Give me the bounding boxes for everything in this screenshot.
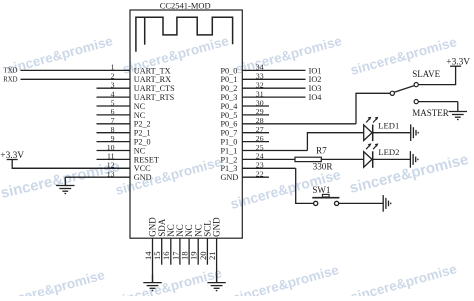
- svg-text:R7: R7: [316, 146, 327, 156]
- wire +3.3V to VCC pin 12: [12, 160, 130, 169]
- svg-text:IO1: IO1: [309, 66, 322, 75]
- svg-text:SW1: SW1: [312, 185, 330, 195]
- wire pin 34: [242, 69, 305, 71]
- svg-text:10: 10: [107, 143, 115, 152]
- svg-text:CC2541-MOD: CC2541-MOD: [160, 1, 211, 11]
- svg-text:P2_1: P2_1: [134, 129, 151, 138]
- pin 10 stub: [97, 150, 131, 152]
- pin 9 stub: [97, 141, 131, 143]
- wire pin 2 from RXD: [21, 78, 131, 80]
- svg-text:8: 8: [111, 125, 115, 134]
- svg-text:11: 11: [107, 152, 115, 161]
- svg-text:7: 7: [111, 116, 115, 125]
- svg-text:P2_0: P2_0: [134, 138, 151, 147]
- wire pin 32: [242, 87, 305, 89]
- pushbutton SW1: [312, 185, 339, 205]
- wire pin 23: [242, 167, 295, 169]
- svg-text:IO2: IO2: [309, 75, 322, 84]
- switch pole contact: [390, 91, 394, 95]
- ground (pin 14): [143, 274, 161, 290]
- wire pin 12 VCC to +3.3V: [12, 167, 130, 169]
- svg-text:UART_RTS: UART_RTS: [134, 93, 175, 102]
- wire pin 25 riser to LED1 row: [307, 133, 363, 151]
- svg-text:26: 26: [256, 134, 264, 143]
- wire pin 26: [242, 141, 269, 143]
- wire pin 30: [242, 105, 269, 107]
- wire pin 28: [242, 123, 356, 125]
- wire pin 28 to switch pole: [356, 93, 390, 124]
- svg-text:MASTER: MASTER: [412, 108, 449, 118]
- ground (pin 13): [56, 177, 74, 193]
- pin 4 stub: [97, 96, 131, 98]
- svg-text:31: 31: [256, 89, 264, 98]
- wire pin 13 GND to ground: [65, 176, 130, 178]
- wire pin 29: [242, 114, 269, 116]
- svg-text:GND: GND: [221, 173, 239, 182]
- svg-text:GND: GND: [134, 173, 152, 182]
- power +3.3V (right): [446, 58, 470, 68]
- svg-text:UART_CTS: UART_CTS: [134, 84, 175, 93]
- bottom pin 18 stub: [188, 238, 190, 265]
- bottom pin 20 stub: [206, 238, 208, 265]
- svg-text:25: 25: [256, 143, 264, 152]
- pin 7 stub: [97, 123, 131, 125]
- MASTER contact: [414, 100, 418, 104]
- wire pin 1 from TXD: [21, 69, 131, 71]
- pin 5 stub: [97, 105, 131, 107]
- bottom pin 21 wire: [216, 238, 218, 282]
- wire pin 25: [242, 150, 307, 152]
- svg-text:1: 1: [111, 63, 115, 72]
- svg-text:TXD: TXD: [4, 68, 18, 75]
- svg-text:3: 3: [111, 81, 115, 90]
- svg-text:28: 28: [256, 116, 264, 125]
- ground (LED2): [410, 151, 418, 168]
- svg-text:34: 34: [256, 63, 264, 72]
- svg-text:22: 22: [256, 170, 264, 179]
- svg-text:32: 32: [256, 81, 264, 90]
- svg-text:13: 13: [107, 170, 115, 179]
- ground (SW1): [383, 195, 391, 212]
- wire pin 27: [242, 132, 269, 134]
- svg-text:P1_1: P1_1: [221, 146, 238, 155]
- svg-text:GND: GND: [212, 217, 222, 237]
- svg-text:21: 21: [207, 251, 217, 260]
- LED LED2: [364, 143, 400, 167]
- svg-text:NC: NC: [134, 111, 146, 120]
- resistor R7 body: [295, 157, 321, 161]
- svg-text:24: 24: [256, 152, 264, 161]
- svg-text:330R: 330R: [313, 162, 334, 172]
- svg-text:29: 29: [256, 107, 264, 116]
- svg-text:P1_2: P1_2: [221, 155, 238, 164]
- svg-text:UART_RX: UART_RX: [134, 75, 171, 84]
- svg-text:30: 30: [256, 98, 264, 107]
- svg-text:P2_2: P2_2: [134, 120, 151, 129]
- svg-text:NC: NC: [134, 102, 146, 111]
- SLAVE contact: [414, 83, 418, 87]
- svg-text:P0_1: P0_1: [221, 75, 238, 84]
- svg-text:IO4: IO4: [309, 93, 322, 102]
- pin 3 stub: [97, 87, 131, 89]
- svg-text:9: 9: [111, 134, 115, 143]
- svg-text:NC: NC: [134, 146, 146, 155]
- svg-text:LED2: LED2: [378, 147, 399, 157]
- antenna feed stub: [144, 17, 146, 45]
- pin 6 stub: [97, 114, 131, 116]
- wire SW1 to ground: [339, 202, 384, 204]
- switch lever to SLAVE: [394, 86, 414, 93]
- bottom pin 16 stub: [170, 238, 172, 265]
- svg-text:P0_5: P0_5: [221, 111, 238, 120]
- svg-text:2: 2: [111, 72, 115, 81]
- wire MASTER contact to ground: [418, 101, 458, 103]
- ground (pin 21): [207, 274, 225, 290]
- svg-text:P1_3: P1_3: [221, 164, 238, 173]
- svg-text:IO3: IO3: [309, 84, 322, 93]
- power +3.3V (left): [0, 151, 24, 161]
- svg-text:P0_0: P0_0: [221, 66, 238, 75]
- svg-text:33: 33: [256, 72, 264, 81]
- wire LED1 cathode to ground: [373, 132, 411, 134]
- svg-text:27: 27: [256, 125, 264, 134]
- module U1 CC2541-MOD body: [130, 10, 242, 238]
- svg-text:RESET: RESET: [134, 155, 159, 164]
- svg-text:RXD: RXD: [3, 76, 17, 83]
- wire LED2 cathode to ground: [373, 158, 411, 160]
- svg-text:P0_7: P0_7: [221, 129, 238, 138]
- wire pin 22: [242, 176, 269, 178]
- svg-text:VCC: VCC: [134, 164, 151, 173]
- svg-text:SLAVE: SLAVE: [412, 69, 440, 79]
- svg-text:P1_0: P1_0: [221, 138, 238, 147]
- svg-text:P0_6: P0_6: [221, 120, 238, 129]
- svg-text:UART_TX: UART_TX: [134, 66, 171, 75]
- pin 8 stub: [97, 132, 131, 134]
- wire pin 24: [242, 158, 295, 160]
- wire pin 13 down: [64, 176, 66, 179]
- wire pin 31: [242, 96, 305, 98]
- PCB meander antenna inside module: [136, 17, 233, 52]
- bottom pin 17 stub: [179, 238, 181, 265]
- wire R7 to LED2: [321, 158, 363, 160]
- bottom pin 14 wire: [152, 238, 154, 282]
- svg-text:P0_2: P0_2: [221, 84, 238, 93]
- ground (MASTER): [449, 102, 467, 120]
- svg-text:P0_3: P0_3: [221, 93, 238, 102]
- bottom pin 15 stub: [161, 238, 163, 265]
- ground (LED1): [411, 124, 419, 141]
- svg-text:23: 23: [256, 161, 264, 170]
- LED LED1: [364, 117, 400, 141]
- svg-text:LED1: LED1: [378, 120, 399, 130]
- svg-text:6: 6: [111, 107, 115, 116]
- wire pin 33: [242, 78, 305, 80]
- bottom pin 19 stub: [197, 238, 199, 265]
- wire pin 23 down to SW1: [296, 168, 314, 203]
- wire SLAVE contact to +3.3V: [418, 66, 455, 84]
- svg-text:P0_4: P0_4: [221, 102, 238, 111]
- svg-text:5: 5: [111, 98, 115, 107]
- pin 11 stub: [97, 158, 131, 160]
- svg-text:4: 4: [111, 89, 115, 98]
